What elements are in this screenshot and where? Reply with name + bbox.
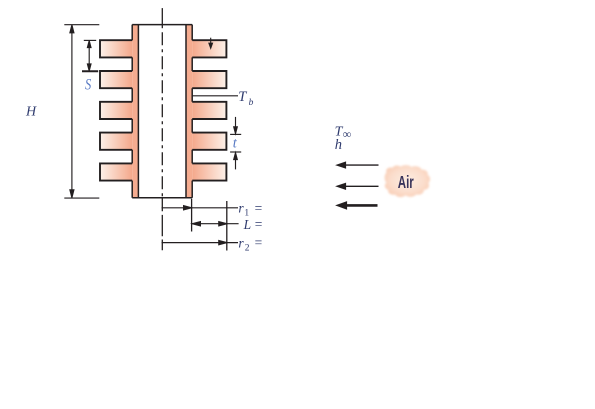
Tb leader xyxy=(192,95,238,97)
svg-text:h: h xyxy=(335,137,342,153)
dimension H line xyxy=(64,25,99,198)
label L xyxy=(243,217,263,232)
dimension L line xyxy=(192,222,238,226)
svg-text:S: S xyxy=(85,76,91,94)
svg-text:∞: ∞ xyxy=(343,127,352,141)
svg-text:H: H xyxy=(25,104,37,119)
centerline lower extension xyxy=(161,198,163,250)
extension line r2 xyxy=(226,201,228,251)
fin 2 right xyxy=(192,71,226,88)
centerline xyxy=(161,8,163,28)
centerline dashes xyxy=(161,32,163,198)
label Tb xyxy=(238,89,253,108)
fin 5 right xyxy=(192,163,226,180)
dimension S line xyxy=(82,40,98,71)
air cloud xyxy=(385,165,431,197)
dimension t lines xyxy=(230,117,241,169)
svg-text:Air: Air xyxy=(398,173,414,193)
air arrow 2 xyxy=(335,183,378,190)
fin 2 left xyxy=(100,71,132,88)
svg-text:t: t xyxy=(233,135,238,151)
air arrow 1 xyxy=(335,161,378,168)
fin top arrow xyxy=(209,38,213,49)
label T-infinity xyxy=(335,125,352,142)
extension line r1 xyxy=(191,199,193,232)
svg-text:=: = xyxy=(255,235,263,250)
svg-text:=: = xyxy=(255,217,263,232)
fin 1 right xyxy=(192,40,226,57)
fin 1 left xyxy=(100,40,132,57)
air arrow 3 xyxy=(335,201,377,210)
svg-text:b: b xyxy=(249,98,254,108)
dimension r1 line xyxy=(162,206,239,210)
dimension r2 line xyxy=(162,241,239,245)
svg-text:T: T xyxy=(238,89,247,105)
svg-text:=: = xyxy=(255,200,263,215)
tube wall right xyxy=(186,25,192,198)
tube outline xyxy=(132,25,192,198)
svg-text:L: L xyxy=(243,217,252,232)
fin 3 right xyxy=(192,102,226,119)
label r2 xyxy=(238,235,262,253)
svg-text:r: r xyxy=(238,235,244,250)
label r1 xyxy=(238,200,262,218)
fin 5 left xyxy=(100,163,132,180)
fin 4 left xyxy=(100,133,132,150)
svg-text:2: 2 xyxy=(245,243,250,253)
fin 4 right xyxy=(192,133,226,150)
fin 3 left xyxy=(100,102,132,119)
tube wall left xyxy=(132,25,138,198)
